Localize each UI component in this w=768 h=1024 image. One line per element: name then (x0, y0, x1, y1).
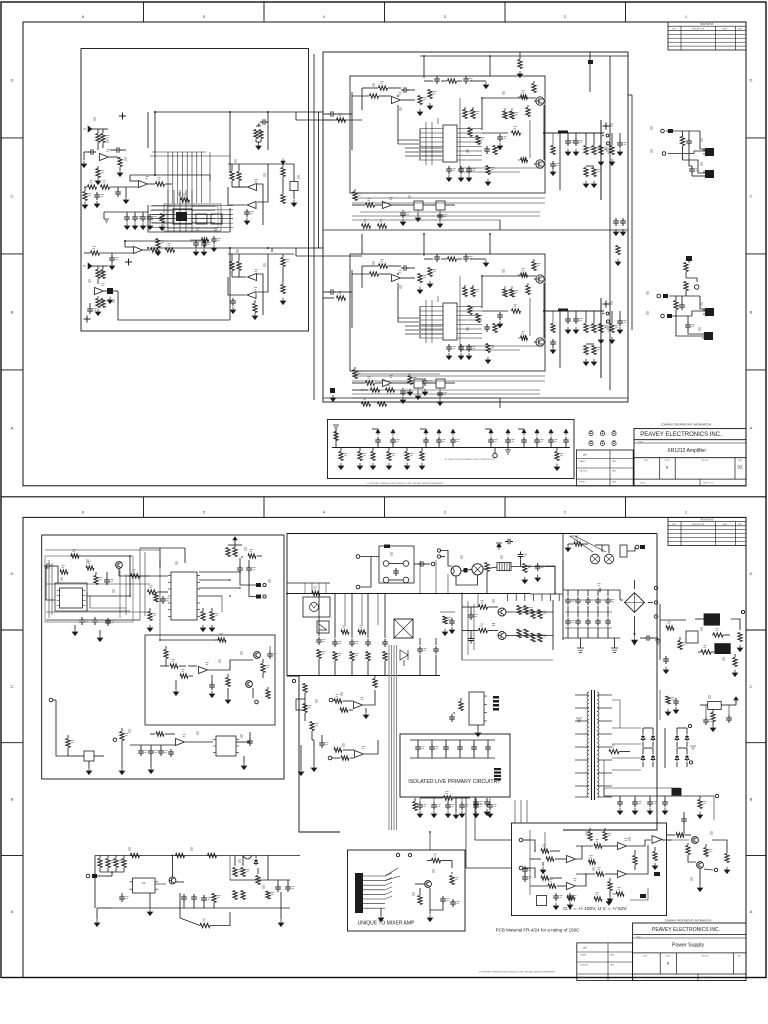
driver pin wire (457, 315, 482, 317)
wire (472, 107, 474, 110)
ground (147, 223, 152, 230)
bus wire gray (398, 317, 420, 319)
bus horizontal wire (565, 627, 612, 629)
ground (241, 763, 246, 770)
value label (124, 158, 127, 160)
value label (144, 751, 147, 753)
ground (427, 103, 432, 110)
wire (260, 139, 262, 142)
capacitor C92 (585, 597, 591, 605)
wire (295, 112, 297, 120)
svg-text:D: D (750, 571, 753, 576)
wire (519, 52, 521, 59)
capacitor C116 (147, 214, 153, 222)
wire (634, 865, 636, 870)
wire (95, 572, 97, 575)
value label (271, 893, 274, 895)
wire (731, 619, 740, 630)
ground (483, 260, 488, 267)
IC U10 dark body (176, 212, 187, 221)
value label (380, 220, 383, 222)
resistor R113 (341, 630, 349, 634)
junction (267, 247, 269, 249)
wire (676, 748, 678, 754)
wire (576, 845, 593, 847)
connector J11 (263, 583, 266, 586)
wire (123, 856, 125, 859)
wire (543, 283, 545, 338)
wire (107, 868, 109, 872)
resistor R98 (180, 674, 188, 678)
callout pointer (570, 536, 606, 552)
triac Q30 (400, 650, 408, 666)
capacitor C33 (613, 218, 619, 226)
capacitor C131 (473, 802, 479, 810)
value label (146, 217, 149, 219)
capacitor C81 (443, 744, 449, 752)
wire (96, 908, 98, 920)
IC pin wire (192, 209, 215, 211)
wire (552, 600, 554, 650)
capacitor C103 (191, 894, 197, 902)
capacitor C29 (573, 316, 579, 324)
value label (423, 98, 426, 100)
wire (419, 798, 421, 802)
wire (607, 606, 609, 617)
junction (585, 873, 587, 875)
svg-text:FSCM: FSCM (665, 460, 670, 462)
wire (401, 99, 415, 101)
value label (722, 658, 725, 660)
bus vertical wire (209, 152, 211, 203)
value label (93, 118, 96, 120)
value label (85, 620, 88, 622)
connector pin wire (363, 898, 385, 900)
zone tick top (625, 497, 627, 518)
resistor R70 (567, 896, 575, 900)
ground (466, 175, 471, 182)
driver pin wire (457, 137, 482, 139)
wire (439, 388, 441, 390)
value label (514, 305, 517, 307)
connector J12 (263, 595, 266, 598)
revision table column (680, 522, 682, 546)
value label (73, 550, 76, 552)
wire (576, 846, 582, 859)
bus horizontal wire (352, 219, 500, 221)
svg-text:C: C (11, 193, 14, 198)
resistor R71 (371, 388, 380, 392)
value label (574, 879, 577, 881)
wire (473, 740, 475, 744)
resistor R152 (233, 891, 237, 900)
junction (534, 850, 536, 852)
value label (214, 228, 217, 230)
bus horizontal wire (46, 611, 150, 613)
wire (597, 627, 599, 638)
driver pin wire (420, 137, 443, 139)
driver pin wire (420, 310, 443, 312)
wire (351, 92, 353, 150)
wire (529, 298, 531, 336)
value label (700, 628, 703, 630)
relay block (414, 201, 423, 210)
wire (429, 888, 431, 914)
resistor R174 (468, 128, 472, 137)
resistor R80 (555, 452, 559, 461)
junction (481, 97, 483, 99)
resistor R15 (101, 270, 105, 279)
value label (60, 578, 63, 580)
wire (488, 606, 498, 608)
wire (213, 892, 215, 895)
resistor R40 (512, 131, 521, 135)
value label (543, 635, 546, 637)
resistor R91 (148, 590, 157, 594)
wire (97, 875, 112, 877)
value label (128, 730, 131, 732)
ground (404, 463, 409, 470)
wire (523, 868, 535, 878)
wire (676, 310, 704, 336)
wire (234, 540, 236, 545)
value label (469, 257, 472, 259)
capacitor C138 (267, 651, 273, 659)
wire (352, 382, 365, 384)
wire (523, 867, 530, 869)
wire (692, 311, 705, 316)
wire (560, 310, 604, 312)
value label (339, 114, 342, 116)
primary bus wire (287, 593, 530, 595)
value label (494, 440, 497, 442)
wire (409, 89, 415, 91)
wire (666, 834, 675, 836)
value label (522, 332, 525, 334)
revision table line (668, 525, 746, 527)
transistor Q8 (498, 608, 506, 616)
sheet divider border (1, 496, 766, 498)
svg-text:SCALE: SCALE (640, 482, 646, 485)
value label (466, 150, 469, 152)
resistor R20 (230, 172, 234, 181)
resistor R154 (256, 876, 260, 885)
wire (88, 761, 90, 768)
ground (522, 577, 527, 584)
primary box outline (287, 676, 340, 832)
value label (476, 290, 479, 292)
analog switch block (211, 214, 222, 224)
driver pin wire (420, 328, 443, 330)
wire (221, 596, 223, 612)
value label (428, 381, 431, 383)
value label (368, 377, 371, 379)
wire (527, 105, 529, 107)
wire (271, 248, 273, 252)
value label (522, 608, 525, 610)
wire (686, 278, 697, 282)
svg-text:A: A (11, 425, 14, 430)
transistor Q10 (169, 877, 176, 884)
bus vertical wire (172, 152, 174, 203)
signal wire ch1 (155, 111, 308, 113)
wire (229, 208, 231, 232)
capacitor C109 (553, 893, 559, 901)
driver pin wire (457, 319, 482, 321)
connector pin (494, 768, 501, 770)
resistor R60 (512, 309, 521, 313)
wire (228, 187, 246, 205)
pin pad (493, 704, 499, 707)
value label (455, 878, 458, 880)
wire (229, 112, 231, 172)
value label (373, 384, 376, 386)
resistor R183 (476, 314, 480, 323)
power arrow (451, 429, 455, 436)
capacitor C94 (595, 597, 601, 605)
value label (423, 805, 426, 807)
capacitor C76 (468, 636, 474, 644)
wire (433, 798, 435, 802)
wire (389, 563, 403, 565)
value label (474, 615, 477, 617)
supply wire (604, 795, 714, 797)
resistor R57 (493, 324, 497, 333)
value label (111, 621, 114, 623)
connector J31 (86, 874, 90, 878)
wire bundle gray (520, 800, 522, 823)
wire (374, 676, 376, 678)
ground (554, 464, 559, 471)
wire (90, 596, 126, 608)
pin pad (493, 700, 499, 703)
resistor R133 (310, 722, 314, 731)
ground (550, 347, 555, 354)
wire (664, 728, 666, 768)
wire (257, 184, 263, 225)
wire (92, 265, 108, 267)
ground (609, 337, 614, 344)
wire (559, 311, 561, 368)
wire (252, 688, 254, 698)
wire (102, 266, 104, 269)
resistor R28 (253, 304, 257, 313)
diode D8 (685, 755, 689, 762)
transformer tap wire (598, 796, 613, 798)
resistor R1 (96, 134, 100, 143)
transformer tap wire (598, 733, 613, 735)
zone tick top (263, 2, 265, 22)
ground (363, 712, 368, 719)
capacitor C122 (497, 312, 503, 320)
value label (338, 642, 341, 644)
capacitor C47 (689, 166, 695, 174)
bus vertical wire (167, 152, 169, 203)
resistor R102 (226, 678, 230, 687)
driver pin wire (457, 159, 482, 161)
wire (700, 704, 708, 706)
resistor R128 (334, 748, 342, 752)
ground (147, 625, 152, 632)
bus vertical wire (159, 560, 161, 640)
capacitor C57 (209, 682, 215, 690)
wire (451, 861, 453, 869)
wire (507, 444, 509, 448)
wire (312, 739, 314, 741)
wire (695, 618, 704, 620)
revision table line (668, 541, 746, 543)
wire (110, 186, 138, 188)
wire (721, 704, 736, 706)
ground (484, 809, 489, 816)
value label (240, 652, 243, 654)
wire (567, 133, 569, 138)
value label (207, 898, 210, 900)
wire (485, 428, 491, 430)
wire (614, 638, 616, 648)
wire (481, 276, 483, 308)
wire (267, 687, 269, 689)
zone tick top (384, 2, 386, 22)
wire (157, 591, 168, 593)
polarity + mark (603, 123, 610, 130)
transistor Q9 (498, 632, 506, 640)
wire (352, 373, 440, 375)
relay cross (394, 619, 413, 638)
capacitor C72 (382, 639, 388, 647)
value label (500, 556, 503, 558)
wire (295, 248, 297, 256)
revision table line (668, 533, 746, 535)
wire (430, 904, 443, 910)
wire (423, 56, 425, 78)
value label (183, 735, 186, 737)
ground (487, 811, 492, 818)
value label (716, 629, 719, 631)
connector J27 (654, 615, 657, 618)
wire (507, 448, 509, 451)
driver pin wire (457, 155, 482, 157)
wire (159, 548, 161, 568)
wire (83, 152, 85, 160)
capacitor C43 (534, 437, 540, 445)
zone tick top (143, 497, 145, 518)
value label (522, 269, 525, 271)
wire (550, 877, 562, 879)
value label (150, 586, 153, 588)
ground (193, 249, 198, 256)
wire (282, 177, 284, 194)
op-amp U5 (248, 184, 257, 191)
wire (595, 544, 609, 546)
component block (537, 896, 547, 906)
wire (140, 575, 168, 577)
value label (343, 626, 346, 628)
resistor R191 (616, 892, 624, 896)
zone tick top (625, 2, 627, 22)
wire (602, 845, 617, 847)
resistor R106 (523, 564, 527, 573)
resistor R18 (254, 130, 258, 139)
pin pad (493, 708, 499, 711)
bus wire gray (360, 389, 540, 391)
title block column (674, 458, 676, 479)
fan wire (385, 878, 392, 881)
driver pin wire (420, 324, 443, 326)
wire (255, 139, 257, 142)
wire (92, 128, 108, 130)
connector J14 (113, 738, 117, 742)
ground (147, 909, 152, 916)
ground (209, 625, 214, 632)
value label (476, 112, 479, 114)
connector J3 (606, 312, 609, 315)
wire (400, 382, 414, 384)
wire (686, 728, 688, 734)
capacitor C38 (436, 437, 442, 445)
ground (598, 337, 603, 344)
op-amp U16 (355, 751, 364, 758)
value label (625, 839, 628, 841)
wire (106, 572, 108, 577)
zone tick left (1, 137, 23, 139)
value label (503, 137, 506, 139)
value label (508, 291, 511, 293)
ground (459, 811, 464, 818)
wire (94, 755, 104, 757)
resistor R38 (532, 84, 536, 93)
ground (427, 915, 432, 922)
value label (183, 194, 186, 196)
wire bundle gray (393, 645, 395, 830)
wire (499, 220, 501, 230)
signature table line (576, 467, 633, 469)
value label (559, 896, 562, 898)
junction (461, 593, 463, 595)
primary box outline (287, 534, 657, 677)
capacitor C101 (119, 894, 125, 902)
value label (579, 141, 582, 143)
driver pin wire (420, 150, 443, 152)
junction (229, 595, 231, 597)
resistor R50 (370, 272, 379, 276)
connector J2 (606, 142, 609, 145)
value label (166, 599, 169, 601)
wire (567, 606, 569, 617)
wire (582, 543, 588, 545)
fan wire (385, 891, 392, 894)
preamp section box (81, 49, 309, 332)
capacitor C79 (415, 744, 421, 752)
wire (550, 444, 552, 448)
junction (172, 855, 174, 857)
value label (671, 698, 674, 700)
ground (159, 224, 164, 231)
value label (102, 284, 105, 286)
capacitor C30 (617, 318, 623, 326)
value label (412, 893, 415, 895)
wire (87, 595, 130, 597)
power arrow (549, 429, 553, 436)
revision table line (668, 41, 746, 43)
wire (490, 444, 492, 448)
op-amp U12 (383, 380, 392, 387)
capacitor C102 (181, 894, 187, 902)
wire (119, 167, 121, 170)
wire (600, 311, 602, 323)
connector J34 (519, 838, 523, 842)
wire (121, 893, 123, 894)
